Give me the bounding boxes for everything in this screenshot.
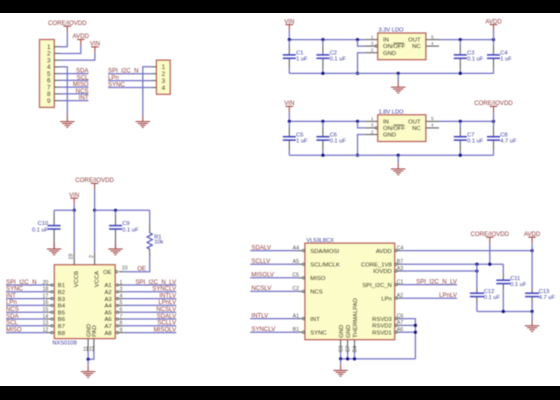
svg-text:9: 9 xyxy=(119,327,122,333)
ground under C10 xyxy=(53,243,55,249)
ground under 3.3V LDO xyxy=(397,81,399,87)
svg-text:IN: IN xyxy=(383,38,389,44)
svg-text:C2: C2 xyxy=(330,51,337,57)
svg-text:LPn: LPn xyxy=(381,296,391,302)
svg-text:19: 19 xyxy=(68,254,74,260)
regulator 1.8V LDO xyxy=(378,115,426,142)
svg-text:C9: C9 xyxy=(122,221,129,227)
wire ground drop xyxy=(397,73,399,81)
svg-text:C5: C5 xyxy=(296,132,303,138)
svg-text:A1: A1 xyxy=(104,283,111,289)
pin B7 (13) wire net SCL xyxy=(6,325,46,327)
svg-text:B4: B4 xyxy=(352,346,358,352)
svg-text:C7: C7 xyxy=(467,132,474,138)
capacitor C2 0.1 uF xyxy=(322,40,324,45)
pin B4 (16) wire net LPn xyxy=(6,304,46,306)
svg-text:18: 18 xyxy=(43,287,49,293)
ground under 1.8V LDO xyxy=(397,163,399,169)
svg-text:A4: A4 xyxy=(293,245,299,251)
wire AVDD row xyxy=(401,250,532,252)
pin RSVD1 (A6) stub xyxy=(395,331,397,333)
pin RSVD3 (C6) stub xyxy=(395,318,397,320)
svg-text:ON/OFF: ON/OFF xyxy=(383,126,406,132)
wire VIN to VCCB node xyxy=(73,204,75,210)
wire net INT xyxy=(60,100,89,102)
svg-text:MISO: MISO xyxy=(310,276,325,282)
svg-text:3: 3 xyxy=(371,41,374,46)
regulator pin 5 OUT stub xyxy=(426,39,439,41)
svg-text:GND: GND xyxy=(383,133,396,139)
svg-text:8: 8 xyxy=(119,321,122,327)
pin B3 (17) wire net INT xyxy=(6,298,46,300)
pin A6 (7) wire net SDALV xyxy=(119,318,124,320)
wire ground drop xyxy=(397,155,399,163)
wire net SDA xyxy=(60,73,89,75)
svg-text:9: 9 xyxy=(47,98,51,105)
svg-text:C6: C6 xyxy=(330,132,337,138)
svg-text:0.1 uF: 0.1 uF xyxy=(484,295,501,301)
svg-text:0.1 uF: 0.1 uF xyxy=(510,282,527,288)
svg-text:A6: A6 xyxy=(104,317,112,323)
svg-text:C5: C5 xyxy=(292,273,299,279)
regulator pin 1 IN stub xyxy=(365,120,378,122)
svg-text:7: 7 xyxy=(119,314,122,320)
svg-text:10k: 10k xyxy=(154,239,163,245)
pin NCS (C2) wire net NCSLV xyxy=(250,290,298,292)
pin VCCB (19) xyxy=(73,210,75,252)
svg-text:C10: C10 xyxy=(38,221,48,227)
capacitor C10 0.1 uF xyxy=(53,210,55,215)
svg-text:B4: B4 xyxy=(58,304,66,310)
ground under 9-pin connector xyxy=(66,115,68,121)
connector pin stubs xyxy=(54,46,60,48)
pin A5 (6) wire net NCSLV xyxy=(119,311,124,313)
pin B6 (14) wire net SDA xyxy=(6,318,46,320)
svg-text:RSVD3: RSVD3 xyxy=(372,317,392,323)
pin A4 (5) wire net LPnLV xyxy=(119,304,124,306)
wire CORE/IOVDD drop to CORE_1V8 row xyxy=(489,243,491,264)
pin B1 (20) wire net SPI_I2C_N xyxy=(6,284,46,286)
top letterbox bar xyxy=(0,0,560,13)
svg-text:A4: A4 xyxy=(104,304,112,310)
svg-text:IN: IN xyxy=(383,120,389,126)
capacitor C3 0.1 uF xyxy=(459,40,461,45)
svg-text:4: 4 xyxy=(162,85,166,92)
svg-text:SDA/MOSI: SDA/MOSI xyxy=(310,249,339,255)
svg-text:1 uF: 1 uF xyxy=(296,57,308,63)
svg-text:C12: C12 xyxy=(484,289,494,295)
svg-text:MISOLV: MISOLV xyxy=(154,326,178,333)
wire C13 to ground xyxy=(531,312,533,320)
svg-text:10: 10 xyxy=(122,266,128,272)
svg-text:B1: B1 xyxy=(58,283,65,289)
svg-text:B8: B8 xyxy=(58,331,66,337)
svg-text:C8: C8 xyxy=(500,132,507,138)
svg-text:4: 4 xyxy=(431,41,434,46)
svg-text:1.8V LDO: 1.8V LDO xyxy=(379,109,405,115)
svg-text:INT: INT xyxy=(310,317,320,323)
svg-text:MISOLV: MISOLV xyxy=(251,272,275,279)
wire net LPn xyxy=(108,80,151,82)
svg-text:NCSLV: NCSLV xyxy=(251,285,272,292)
svg-text:NXS0108: NXS0108 xyxy=(52,340,76,346)
svg-text:1 uF: 1 uF xyxy=(500,57,512,63)
svg-text:4: 4 xyxy=(119,293,122,299)
svg-text:A5: A5 xyxy=(104,310,112,316)
wire input rail xyxy=(289,39,364,41)
wire CORE_1V8 row xyxy=(401,263,503,265)
capacitor C8 4.7 uF xyxy=(493,121,495,126)
svg-text:0.1 uF: 0.1 uF xyxy=(330,57,347,63)
svg-text:LPnLV: LPnLV xyxy=(439,292,458,299)
pin VCCA (2) xyxy=(94,210,96,252)
regulator pin 1 IN stub xyxy=(365,39,378,41)
svg-text:C7: C7 xyxy=(345,345,351,352)
svg-text:1: 1 xyxy=(119,280,122,286)
svg-text:VCCA: VCCA xyxy=(95,271,101,287)
wire CORE/IOVDD to VCCA node xyxy=(94,189,96,210)
pin A7 (8) wire net SCLLV xyxy=(119,325,124,327)
svg-text:VCCB: VCCB xyxy=(74,271,80,287)
capacitor C9 0.1 uF xyxy=(115,210,117,215)
wire node to C10 xyxy=(54,209,74,211)
svg-text:A7: A7 xyxy=(104,324,111,330)
svg-text:A1: A1 xyxy=(293,313,299,319)
svg-text:16: 16 xyxy=(43,300,49,306)
svg-text:5: 5 xyxy=(431,116,434,121)
svg-text:VL53L8CX: VL53L8CX xyxy=(306,238,334,244)
svg-text:3: 3 xyxy=(371,123,374,128)
svg-text:0.1 uF: 0.1 uF xyxy=(32,227,49,233)
wire pin4 to ground xyxy=(60,67,67,115)
resistor R1 10k pull-up xyxy=(149,210,151,224)
svg-text:0.1 uF: 0.1 uF xyxy=(467,57,484,63)
svg-text:17: 17 xyxy=(43,293,49,299)
svg-text:MISO: MISO xyxy=(6,326,22,333)
svg-text:SPI_I2C_N_LV: SPI_I2C_N_LV xyxy=(416,278,458,285)
svg-text:IOVDD: IOVDD xyxy=(373,269,392,275)
wire RSVD tie xyxy=(401,319,415,359)
pin INT (A1) wire net INTLV xyxy=(250,318,298,320)
wire R1 to OE xyxy=(124,257,150,272)
wire net SPI_I2C_N xyxy=(108,73,151,75)
svg-text:6: 6 xyxy=(119,307,122,313)
pin IOVDD (A3) stub xyxy=(395,270,397,272)
pin OE stub with bubble xyxy=(119,271,124,273)
svg-text:INT: INT xyxy=(79,95,89,102)
svg-text:GND: GND xyxy=(346,325,352,338)
wire ground rail xyxy=(289,154,493,156)
pin A8 (9) wire net MISOLV xyxy=(119,332,124,334)
svg-text:0.1 uF: 0.1 uF xyxy=(467,139,484,145)
svg-text:A3: A3 xyxy=(104,297,112,303)
svg-text:4: 4 xyxy=(431,123,434,128)
svg-text:OUT: OUT xyxy=(408,38,421,44)
svg-text:RSVD1: RSVD1 xyxy=(372,330,392,336)
svg-text:3: 3 xyxy=(119,287,122,293)
svg-text:B6: B6 xyxy=(58,317,66,323)
svg-text:AVDD: AVDD xyxy=(376,249,392,255)
svg-text:15: 15 xyxy=(43,307,49,313)
regulator pin 2 GND stub xyxy=(365,52,378,54)
connector 4-pin header xyxy=(156,60,170,94)
svg-text:SCL/MCLK: SCL/MCLK xyxy=(310,262,340,268)
svg-text:NC: NC xyxy=(412,126,421,132)
svg-text:INTLV: INTLV xyxy=(251,312,269,319)
wire to ground xyxy=(340,359,342,364)
svg-text:14: 14 xyxy=(43,314,49,320)
svg-text:3.3V LDO: 3.3V LDO xyxy=(379,28,405,34)
pin SYNC (B1) wire net SYNCLV xyxy=(250,331,298,333)
wire pin1 to CORE/IOVDD xyxy=(60,32,67,47)
svg-text:THERMALPAD: THERMALPAD xyxy=(353,298,359,338)
wire OUT rail xyxy=(439,39,494,41)
wire VIN down to rail xyxy=(288,31,290,40)
pin MISO (C5) wire net MISOLV xyxy=(250,277,298,279)
svg-text:B7: B7 xyxy=(58,324,65,330)
capacitor C13 4.7 uF xyxy=(531,251,533,288)
capacitor C12 0.1 uF xyxy=(476,271,478,288)
connector pin stubs xyxy=(151,66,157,68)
svg-text:4.7 uF: 4.7 uF xyxy=(500,139,517,145)
wire net LPnLV xyxy=(401,297,457,299)
svg-text:SYNC: SYNC xyxy=(108,81,126,88)
svg-text:OE: OE xyxy=(137,266,146,273)
wire ground rail xyxy=(289,72,493,74)
wire pin1 to ground xyxy=(143,67,151,116)
svg-text:13: 13 xyxy=(43,321,49,327)
svg-text:12: 12 xyxy=(43,327,49,333)
svg-text:5: 5 xyxy=(119,300,122,306)
ground under 4-pin connector xyxy=(142,115,144,121)
capacitor C6 0.1 uF xyxy=(322,121,324,126)
svg-text:B2: B2 xyxy=(58,290,65,296)
wire OUT rail xyxy=(439,120,494,122)
svg-text:SYNCLV: SYNCLV xyxy=(251,326,276,333)
regulator pin 3 ON/OFF stub with bubble xyxy=(358,40,365,47)
svg-text:2: 2 xyxy=(89,255,95,258)
svg-text:1 uF: 1 uF xyxy=(296,139,308,145)
svg-text:A5: A5 xyxy=(293,259,299,265)
svg-text:C3: C3 xyxy=(338,345,344,352)
pin RSVD2 (A7) stub xyxy=(395,324,397,326)
wire net SYNC xyxy=(108,87,151,89)
svg-text:NCS: NCS xyxy=(310,290,323,296)
svg-text:5: 5 xyxy=(431,34,434,39)
pin A2 (3) wire net SYNCLV xyxy=(119,291,124,293)
svg-text:SYNC: SYNC xyxy=(310,330,327,336)
svg-text:C13: C13 xyxy=(539,289,549,295)
svg-text:C4: C4 xyxy=(500,51,507,57)
wire net SPI_I2C_N_LV xyxy=(401,284,457,286)
svg-text:4.7 uF: 4.7 uF xyxy=(539,295,556,301)
capacitor C4 1 uF xyxy=(493,40,495,45)
svg-text:0.1 uF: 0.1 uF xyxy=(330,139,347,145)
svg-text:B5: B5 xyxy=(58,310,66,316)
pin AVDD (C4) stub xyxy=(395,250,397,252)
pin A1 (1) wire net SPI_I2C_N_LV xyxy=(119,284,124,286)
svg-text:OE: OE xyxy=(103,270,112,276)
wire bottom ground bus xyxy=(341,358,416,360)
wire IOVDD to CORE_1V8 tie xyxy=(476,264,478,271)
regulator pin 4 NC stub xyxy=(426,127,439,129)
wire pin3 to VIN xyxy=(60,53,95,60)
wire node to C9 and R1 xyxy=(95,209,150,211)
svg-text:1: 1 xyxy=(371,116,374,121)
pin LPn (A2) stub xyxy=(395,297,397,299)
svg-text:A2: A2 xyxy=(104,290,111,296)
pin CORE_1V8 (B7) stub xyxy=(395,263,397,265)
wire cap ground bus xyxy=(477,311,532,313)
wire AVDD symbol drop xyxy=(531,243,533,250)
wire net SCL xyxy=(60,79,89,81)
pins GND(11) PAD(21) bottom xyxy=(87,339,89,351)
wire CORE/IOVDD down to OUT rail xyxy=(493,112,495,121)
svg-text:CORE_1V8: CORE_1V8 xyxy=(361,262,393,268)
pin SCL/MCLK (A5) wire net SCLLV xyxy=(250,263,298,265)
svg-text:OUT: OUT xyxy=(408,120,421,126)
regulator pin 2 GND stub xyxy=(365,134,378,136)
pin B8 (12) wire net MISO xyxy=(6,332,46,334)
pin SDA/MOSI (A4) wire net SDALV xyxy=(250,250,298,252)
wire net NCS xyxy=(60,93,89,95)
svg-text:GND: GND xyxy=(339,325,345,338)
svg-text:ON/OFF: ON/OFF xyxy=(383,44,406,50)
svg-text:20: 20 xyxy=(43,280,49,286)
wire AVDD down to OUT rail xyxy=(493,31,495,40)
svg-text:SCLLV: SCLLV xyxy=(251,258,271,265)
ground under VL53L8CX xyxy=(340,364,342,370)
svg-text:C11: C11 xyxy=(510,276,520,282)
wire net MISO xyxy=(60,86,89,88)
wire input rail xyxy=(289,120,364,122)
wire pin2 to AVDD xyxy=(60,46,81,54)
regulator pin 4 NC stub xyxy=(426,45,439,47)
connector 9-pin header xyxy=(40,40,55,108)
pin B5 (15) wire net NCS xyxy=(6,311,46,313)
capacitor C7 0.1 uF xyxy=(459,121,461,126)
ic NXS0108 body xyxy=(54,265,115,339)
capacitor C5 1 uF xyxy=(288,121,290,126)
svg-text:2: 2 xyxy=(371,129,374,134)
wire GND pins to ground xyxy=(87,359,89,365)
ground under NXS0108 xyxy=(87,365,89,371)
capacitor C1 1 uF xyxy=(288,40,290,45)
regulator 3.3V LDO xyxy=(378,33,426,60)
svg-text:21: 21 xyxy=(89,346,95,352)
pin SPI_I2C_N (C1) stub xyxy=(395,284,397,286)
svg-text:GND: GND xyxy=(383,51,396,57)
svg-text:2: 2 xyxy=(371,48,374,53)
svg-text:SPI_I2C_N: SPI_I2C_N xyxy=(362,283,391,289)
regulator pin 3 ON/OFF stub with bubble xyxy=(358,121,365,128)
svg-text:RSVD2: RSVD2 xyxy=(372,324,392,330)
ground under C9 xyxy=(115,243,117,249)
ic VL53L8CX body xyxy=(305,243,395,340)
capacitor C11 0.1 uF xyxy=(502,264,504,274)
wire VIN down to rail xyxy=(288,112,290,121)
svg-text:1: 1 xyxy=(371,34,374,39)
wire IOVDD row xyxy=(401,270,477,272)
svg-text:NC: NC xyxy=(412,44,421,50)
svg-text:A8: A8 xyxy=(104,331,112,337)
svg-text:PAD: PAD xyxy=(92,325,98,337)
pins GND GND THERMALPAD bottom xyxy=(340,340,342,352)
svg-text:0.1 uF: 0.1 uF xyxy=(122,227,139,233)
pin B2 (18) wire net SYNC xyxy=(6,291,46,293)
ground under C13 xyxy=(531,320,533,326)
svg-text:C1: C1 xyxy=(296,51,303,57)
svg-text:SDALV: SDALV xyxy=(251,244,271,251)
bottom letterbox bar xyxy=(0,386,560,400)
svg-text:B1: B1 xyxy=(293,327,299,333)
pin A3 (4) wire net INTLV xyxy=(119,298,124,300)
regulator pin 5 OUT stub xyxy=(426,120,439,122)
svg-text:B3: B3 xyxy=(58,297,66,303)
svg-text:C2: C2 xyxy=(292,286,299,292)
svg-text:C3: C3 xyxy=(467,51,474,57)
